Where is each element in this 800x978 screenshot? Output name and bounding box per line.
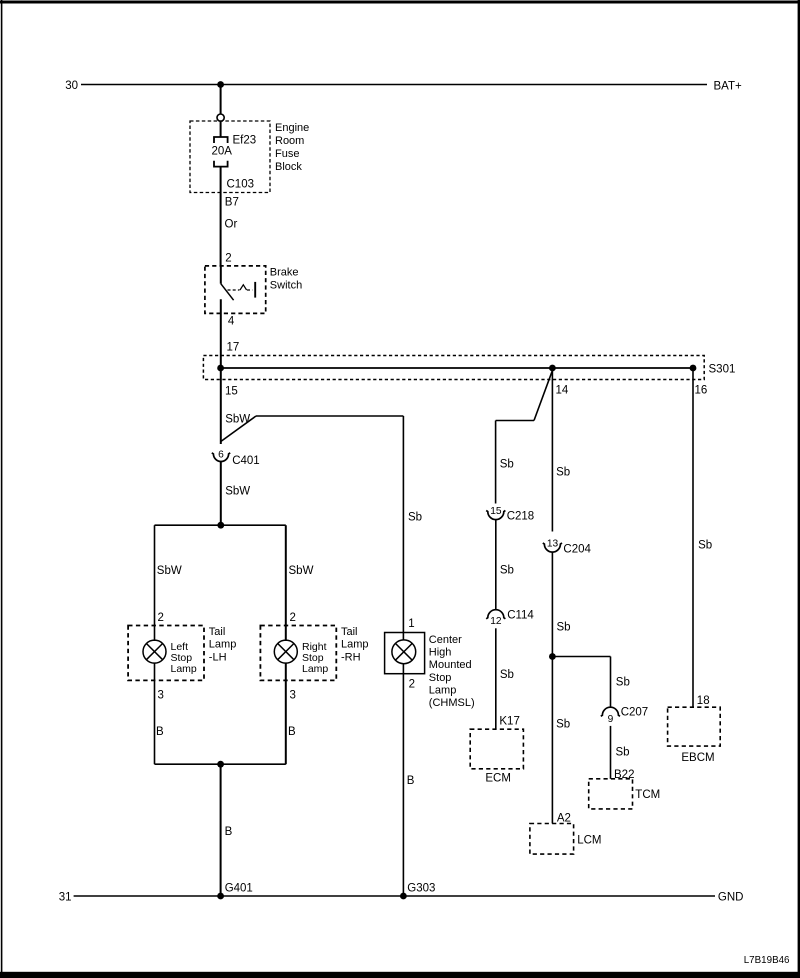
wire C204 down to LCM — [551, 552, 553, 823]
wire to right stop lamp — [285, 525, 287, 641]
svg-text:Lamp: Lamp — [429, 684, 457, 696]
svg-text:2: 2 — [409, 678, 415, 690]
svg-text:Sb: Sb — [500, 458, 514, 470]
svg-text:TCM: TCM — [635, 789, 660, 801]
right stop lamp bulb — [274, 640, 297, 663]
junction to TCM branch — [549, 653, 556, 660]
svg-text:L7B19B46: L7B19B46 — [744, 955, 790, 966]
splice S301 box — [203, 356, 704, 380]
svg-text:Sb: Sb — [556, 719, 570, 731]
svg-text:Tail: Tail — [209, 626, 226, 638]
node 30 BAT+ bus — [65, 80, 742, 93]
svg-text:High: High — [429, 647, 452, 659]
right stop lamp box — [260, 626, 336, 681]
svg-text:B7: B7 — [225, 197, 239, 209]
svg-text:C204: C204 — [563, 544, 591, 556]
connector C204 — [543, 539, 592, 556]
wire brake switch to S301 — [220, 299, 222, 368]
wire left lamp to ground bus — [154, 663, 156, 765]
wire S301 pin14 branch to ECM — [496, 371, 553, 504]
wire return bus to G401 — [220, 764, 222, 896]
svg-text:Tail: Tail — [341, 626, 358, 638]
wire CHMSL to G303 — [402, 664, 404, 897]
wire C218 to C114 Sb — [495, 520, 497, 610]
svg-text:-LH: -LH — [209, 651, 227, 663]
connector C218 — [486, 506, 534, 523]
svg-text:3: 3 — [290, 690, 296, 702]
svg-text:B22: B22 — [614, 769, 634, 781]
svg-text:Block: Block — [275, 161, 302, 173]
node 31 GND bus — [59, 891, 744, 903]
svg-text:C207: C207 — [621, 707, 649, 719]
Engine Room Fuse Block label — [275, 122, 309, 173]
wire C401 to lamp bus SbW — [220, 461, 222, 525]
svg-text:Lamp: Lamp — [209, 639, 237, 651]
splice S301 bus wire — [221, 367, 693, 369]
svg-text:S301: S301 — [709, 364, 736, 376]
TCM box — [589, 779, 633, 809]
Tail Lamp -LH label — [209, 626, 237, 664]
Brake Switch label — [270, 267, 302, 292]
svg-text:Sb: Sb — [557, 621, 571, 633]
wire right lamp to ground bus — [285, 663, 287, 765]
lamp feed bus — [155, 524, 286, 526]
wire branch to CHMSL — [221, 416, 404, 640]
ECM box — [470, 729, 523, 769]
junction lamp return bus — [217, 761, 224, 768]
svg-text:SbW: SbW — [289, 565, 314, 577]
svg-text:GND: GND — [718, 891, 744, 903]
svg-text:B: B — [288, 726, 296, 738]
connector C207 — [601, 707, 648, 725]
lamp return bus — [155, 763, 286, 765]
svg-text:30: 30 — [65, 80, 78, 92]
Center High Mounted Stop Lamp (CHMSL) label — [429, 634, 475, 709]
svg-text:(CHMSL): (CHMSL) — [429, 697, 475, 709]
svg-text:Room: Room — [275, 135, 304, 147]
svg-text:EBCM: EBCM — [681, 752, 714, 764]
svg-text:16: 16 — [695, 385, 708, 397]
svg-text:ECM: ECM — [485, 773, 511, 785]
svg-text:15: 15 — [490, 506, 502, 517]
svg-text:1: 1 — [408, 618, 414, 630]
svg-text:2: 2 — [290, 612, 296, 624]
svg-text:Mounted: Mounted — [429, 659, 472, 671]
svg-text:Switch: Switch — [270, 280, 302, 292]
svg-text:B: B — [225, 826, 233, 838]
left stop lamp box — [128, 626, 204, 681]
svg-text:Sb: Sb — [500, 669, 514, 681]
connector entry circle at fuse block — [217, 114, 224, 121]
LCM box — [530, 824, 574, 855]
svg-text:B: B — [407, 775, 415, 787]
svg-text:3: 3 — [158, 690, 164, 702]
svg-text:17: 17 — [227, 342, 240, 354]
connector C114 — [486, 610, 534, 628]
Engine Room Fuse Block box — [190, 121, 270, 193]
Right Stop Lamp label — [302, 641, 328, 675]
junction on BAT+ bus — [217, 81, 224, 88]
brake switch contacts — [221, 266, 255, 300]
svg-text:SbW: SbW — [225, 486, 250, 498]
svg-text:C114: C114 — [507, 610, 534, 622]
wire pin15 SbW down to C401 — [220, 368, 222, 444]
svg-text:SbW: SbW — [157, 565, 182, 577]
svg-text:Sb: Sb — [616, 747, 630, 759]
svg-text:Ef23: Ef23 — [233, 135, 257, 147]
junction lamp feed bus — [217, 522, 224, 529]
Left Stop Lamp label — [171, 641, 197, 675]
junction S301 middle — [549, 365, 556, 372]
svg-text:Lamp: Lamp — [171, 663, 197, 675]
svg-text:Right: Right — [302, 641, 327, 653]
svg-text:G401: G401 — [225, 883, 253, 895]
wire S301 pin14 down Sb — [551, 368, 553, 532]
junction S301 left — [217, 365, 224, 372]
svg-text:6: 6 — [218, 450, 224, 461]
svg-text:Center: Center — [429, 634, 462, 646]
junction S301 right — [690, 365, 697, 372]
svg-text:Or: Or — [225, 219, 238, 231]
svg-text:-RH: -RH — [341, 651, 361, 663]
EBCM box — [668, 707, 721, 746]
svg-text:9: 9 — [608, 714, 614, 725]
wire BAT+ bus to fuse block — [220, 85, 222, 115]
left stop lamp bulb — [143, 640, 166, 663]
svg-text:BAT+: BAT+ — [714, 81, 743, 93]
svg-text:Sb: Sb — [500, 565, 514, 577]
wire C114 to ECM Sb — [495, 628, 497, 729]
svg-text:18: 18 — [697, 695, 710, 707]
CHMSL bulb — [392, 640, 416, 664]
svg-text:Sb: Sb — [698, 539, 712, 551]
wire to left stop lamp — [154, 525, 156, 641]
svg-text:20A: 20A — [212, 146, 233, 158]
svg-text:Engine: Engine — [275, 122, 309, 134]
svg-text:12: 12 — [490, 616, 502, 627]
Brake Switch box — [205, 266, 266, 314]
svg-text:Left: Left — [171, 641, 189, 653]
svg-text:C401: C401 — [232, 455, 260, 467]
svg-text:Sb: Sb — [556, 467, 570, 479]
svg-text:Brake: Brake — [270, 267, 299, 279]
svg-text:15: 15 — [225, 386, 238, 398]
svg-text:2: 2 — [225, 253, 231, 265]
svg-text:B: B — [156, 726, 164, 738]
Tail Lamp -RH label — [341, 626, 369, 664]
svg-text:13: 13 — [547, 539, 559, 550]
svg-text:G303: G303 — [407, 883, 435, 895]
svg-text:Lamp: Lamp — [302, 663, 328, 675]
svg-text:Fuse: Fuse — [275, 148, 299, 160]
wire C207 to TCM — [610, 726, 612, 779]
svg-text:14: 14 — [556, 385, 569, 397]
svg-text:Sb: Sb — [616, 677, 630, 689]
svg-text:31: 31 — [59, 892, 72, 904]
svg-text:Stop: Stop — [429, 672, 452, 684]
svg-text:C218: C218 — [507, 511, 535, 523]
svg-text:K17: K17 — [499, 716, 519, 728]
wire S301 pin16 to EBCM Sb — [692, 368, 694, 707]
svg-text:Lamp: Lamp — [341, 639, 369, 651]
fuse Ef23 20A — [214, 121, 228, 167]
wire branch to C207 — [552, 657, 610, 708]
CHMSL box — [385, 633, 425, 674]
svg-text:4: 4 — [228, 316, 235, 328]
wire fuse to connector C103 — [220, 167, 222, 266]
svg-text:LCM: LCM — [577, 834, 601, 846]
svg-text:2: 2 — [158, 612, 164, 624]
svg-text:Sb: Sb — [408, 512, 422, 524]
svg-text:C103: C103 — [227, 179, 255, 191]
connector C401 — [212, 450, 260, 468]
